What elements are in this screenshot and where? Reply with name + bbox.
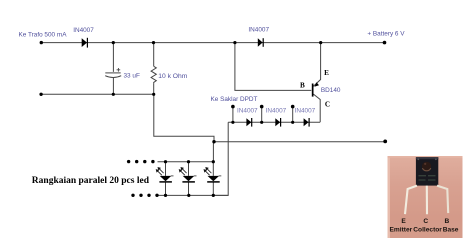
svg-text:C: C xyxy=(325,100,330,108)
svg-text:Ke Saklar DPDT: Ke Saklar DPDT xyxy=(211,96,258,103)
svg-text:IN4007: IN4007 xyxy=(295,108,316,115)
svg-text:+ Battery 6 V: + Battery 6 V xyxy=(367,31,405,38)
svg-text:Collector: Collector xyxy=(413,227,442,234)
svg-text:E: E xyxy=(324,69,329,77)
svg-text:B: B xyxy=(300,82,305,90)
svg-text:E: E xyxy=(401,218,406,225)
svg-text:B: B xyxy=(445,218,450,225)
svg-text:IN4007: IN4007 xyxy=(237,108,258,115)
svg-text:BD140: BD140 xyxy=(321,87,341,94)
svg-text:Ke Trafo 500 mA: Ke Trafo 500 mA xyxy=(19,32,68,39)
svg-text:Base: Base xyxy=(443,227,459,234)
svg-text:33 uF: 33 uF xyxy=(124,72,140,79)
svg-text:IN4007: IN4007 xyxy=(266,108,287,115)
svg-text:C: C xyxy=(423,218,428,225)
svg-text:Emitter: Emitter xyxy=(390,227,413,234)
svg-text:IN4007: IN4007 xyxy=(248,27,269,34)
svg-text:IN4007: IN4007 xyxy=(73,27,94,34)
svg-text:Rangkaian paralel 20 pcs led: Rangkaian paralel 20 pcs led xyxy=(32,176,150,186)
svg-text:10 k Ohm: 10 k Ohm xyxy=(158,73,187,80)
